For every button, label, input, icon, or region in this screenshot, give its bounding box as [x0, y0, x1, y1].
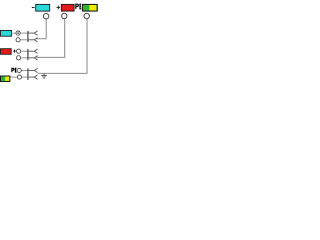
wire bus PE — [38, 19, 87, 74]
potential box -24V (cyan) top — [36, 4, 50, 11]
contact circle E — [17, 68, 21, 72]
stub+chevron pin C — [29, 49, 38, 53]
stub+chevron pin F — [29, 75, 38, 79]
contact circle F — [17, 75, 21, 79]
stub+chevron pin B — [29, 38, 38, 42]
label plus group2 — [13, 50, 16, 53]
wire bus minus — [36, 19, 46, 39]
junction dot in circle A — [17, 32, 19, 34]
device box cyan (group1 row A) — [1, 31, 12, 37]
ground symbol on PE wire — [41, 73, 46, 78]
label PE group3 — [12, 68, 17, 72]
wire A to bar — [20, 32, 27, 34]
connector bar group2 — [27, 49, 29, 60]
connector bar group3 — [27, 68, 29, 80]
terminal circle under PE box — [84, 13, 89, 18]
label minus (top terminal 1) — [32, 7, 35, 9]
terminal circle under red box — [62, 13, 67, 18]
device box PE green/yellow (group3 row F) — [1, 76, 10, 82]
stub+chevron pin E — [29, 68, 38, 72]
potential box +24V (red) top — [61, 4, 74, 11]
wire E to bar — [21, 69, 27, 71]
terminal circle under cyan box — [43, 14, 48, 19]
connector bar group1 — [27, 31, 29, 42]
contact circle A — [16, 31, 20, 35]
wire D to bar — [21, 57, 27, 59]
device box red (group2 row C) — [1, 49, 12, 55]
contact circle C — [17, 49, 21, 53]
stub+chevron pin D — [29, 56, 38, 60]
stub+chevron pin A — [29, 31, 38, 35]
background — [0, 0, 100, 84]
potential box PE (green/yellow) top — [82, 4, 97, 11]
label plus (top terminal 2) — [57, 6, 61, 10]
wire F from box — [10, 76, 17, 78]
wire bus plus — [36, 19, 64, 58]
wire C to bar — [21, 50, 27, 52]
wire row A — [12, 32, 16, 34]
label PE (top terminal 3) — [76, 4, 81, 9]
contact circle D — [17, 56, 21, 60]
wire B to bar — [20, 39, 27, 41]
contact circle B — [16, 38, 20, 42]
wire F to bar — [22, 76, 28, 78]
